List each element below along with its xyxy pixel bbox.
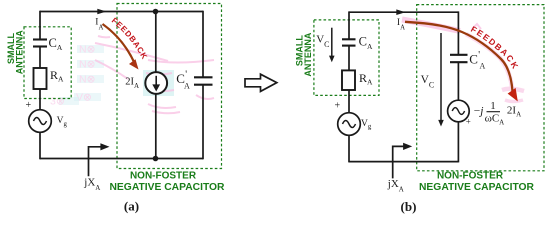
svg-text:3⊗: 3⊗ (50, 96, 65, 108)
watermark pink streaks (a) (95, 36, 214, 113)
wire right lower (a) (202, 85, 204, 160)
svg-text:A: A (184, 81, 190, 90)
svg-text:': ' (478, 50, 480, 61)
svg-text:NON-FOSTER: NON-FOSTER (130, 170, 197, 181)
feedback arrow (b) (405, 22, 518, 102)
svg-text:(b): (b) (401, 199, 417, 214)
voltage arrow V_C (b antenna) (329, 28, 335, 63)
svg-text:NEGATIVE CAPACITOR: NEGATIVE CAPACITOR (110, 182, 226, 193)
arrow I_A (a) (97, 9, 106, 15)
wire mid upper (a) (155, 12, 157, 73)
wire res-source (a) (39, 89, 41, 110)
wire source-bottom2 (b) (457, 122, 459, 163)
wire cap-res (a) (39, 47, 41, 69)
svg-text:+: + (335, 100, 341, 111)
svg-text:−j: −j (474, 106, 484, 118)
svg-text:NEGATIVE CAPACITOR: NEGATIVE CAPACITOR (419, 182, 535, 193)
wire source-bottom (a) (39, 132, 41, 159)
wire right upper (b) (457, 11, 459, 54)
node top junction (a) (153, 9, 159, 15)
capacitor C'_A (a) (194, 77, 213, 84)
wire antenna upper (b) (348, 11, 350, 39)
node bottom junction (a) (153, 156, 159, 162)
impedance probe jX_A (b) (393, 143, 413, 179)
antenna box (b) (314, 20, 379, 96)
wire cap-res (b) (348, 46, 350, 71)
wire top (a) (40, 11, 203, 13)
resistor R_A (a) (34, 68, 47, 89)
current source 2I_A (a) (145, 72, 167, 94)
wire source-bottom (b) (348, 135, 350, 162)
non-Foster box (b) (417, 5, 544, 171)
label -j 1/wC_A 2I_A (b) (474, 100, 521, 126)
svg-text:N⊗: N⊗ (79, 59, 96, 71)
svg-text:ANTENNA: ANTENNA (14, 30, 24, 74)
svg-text:N⊗: N⊗ (79, 74, 96, 86)
watermark glyph row 4 (a) (74, 92, 101, 104)
source V_g (b) (338, 113, 361, 136)
capacitor C_A (b) (342, 39, 356, 45)
resistor R_A (b) (342, 70, 355, 90)
impedance probe jX_A (a) (89, 143, 110, 176)
svg-text:(a): (a) (124, 199, 139, 214)
wire left upper (a) (39, 11, 41, 40)
wire bottom (a) (40, 158, 203, 160)
arrow I_A (b) (396, 9, 405, 15)
watermark cyan patch behind current source (a) (143, 70, 174, 96)
capacitor C'_A (b) (450, 55, 468, 62)
watermark glyph row 1 (a) (77, 44, 104, 56)
wire mid lower (a) (155, 94, 157, 159)
svg-text:+: + (26, 100, 32, 111)
watermark glyph row 5 (a) (50, 96, 79, 108)
wire top (b) (349, 11, 458, 13)
wire bottom (b) (349, 161, 458, 163)
svg-text:A: A (480, 61, 486, 70)
watermark glyph row 2 (a) (77, 59, 104, 71)
svg-text:C: C (469, 52, 478, 67)
svg-text:+: + (466, 117, 471, 127)
non-Foster box (a) (117, 4, 222, 169)
controlled source (b) (448, 100, 470, 122)
capacitor C_A (a) (33, 40, 47, 47)
wire right upper (a) (202, 11, 204, 78)
wire res-source (b) (348, 90, 350, 113)
watermark glyph row 3 (a) (77, 74, 104, 86)
source V_g (a) (29, 110, 52, 133)
block arrow (245, 74, 277, 91)
svg-text:ANTENNA: ANTENNA (303, 32, 313, 76)
svg-text:': ' (185, 70, 187, 81)
svg-text:N⊗: N⊗ (79, 44, 96, 56)
antenna box (a) (24, 27, 71, 99)
svg-text:NON-FOSTER: NON-FOSTER (437, 171, 504, 182)
feedback arrow (a) (103, 24, 139, 70)
voltage arrow V_C (b nonfoster) (438, 33, 444, 127)
wire cap-source (b) (457, 62, 459, 100)
watermark pink band (b) (402, 20, 524, 102)
svg-text:1: 1 (490, 100, 496, 112)
